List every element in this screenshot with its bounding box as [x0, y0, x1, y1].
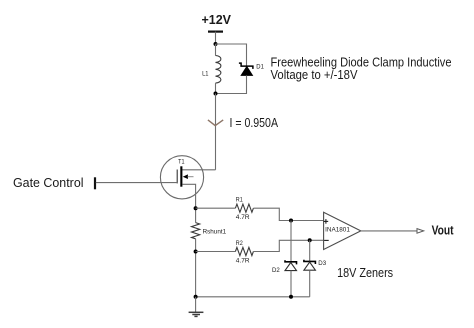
- node D junction dot (plus input / D2): [289, 219, 293, 223]
- inductor L1: [216, 56, 221, 84]
- power rail +12V bar: [208, 31, 223, 33]
- wire ground stub: [195, 297, 197, 313]
- wire D2 anode to bottom wire: [290, 271, 292, 297]
- op-amp plus sign: [324, 219, 329, 224]
- svg-text:R2: R2: [236, 240, 243, 247]
- wire from +12V bar to node A: [215, 32, 217, 44]
- svg-text:INA1801: INA1801: [325, 226, 350, 233]
- gate terminal bar: [94, 177, 96, 189]
- zener D2 body triangle: [285, 263, 297, 271]
- transistor T1 source arrow: [183, 174, 188, 179]
- resistor Rshunt1: [192, 223, 200, 239]
- transistor T1 arrow tail: [188, 176, 194, 178]
- resistor R1: [235, 204, 253, 212]
- wire L1 bottom to node B: [215, 83, 217, 93]
- svg-text:D1: D1: [256, 63, 264, 70]
- svg-text:D2: D2: [272, 267, 280, 274]
- svg-text:4.7R: 4.7R: [236, 214, 250, 221]
- svg-text:Vout: Vout: [432, 224, 455, 238]
- current direction arrow: [208, 120, 223, 126]
- wire gate: [96, 182, 177, 184]
- node H junction dot (D2 on bottom wire): [289, 295, 293, 299]
- output open arrow: [417, 229, 424, 234]
- svg-text:Rshunt1: Rshunt1: [203, 229, 227, 236]
- wire node B down to drain corner: [215, 94, 217, 170]
- node A junction dot (top of L1/D1 pair): [214, 42, 218, 46]
- wire node A to D1 top: [216, 44, 247, 66]
- svg-text:Gate Control: Gate Control: [13, 176, 84, 190]
- wire R2 to opamp minus input: [253, 240, 323, 251]
- zener D2 cathode bar: [285, 260, 297, 264]
- op-amp U1 body: [324, 212, 361, 249]
- wire D3 anode to bottom wire: [309, 270, 311, 297]
- node C junction dot (source / R1): [194, 206, 198, 210]
- op-amp minus sign: [324, 239, 329, 241]
- wire op-amp output: [361, 230, 417, 232]
- diode D1 cathode zener bar: [239, 63, 253, 69]
- zener D3 body triangle: [304, 262, 316, 270]
- svg-text:Voltage to +/-18V: Voltage to +/-18V: [271, 68, 359, 82]
- svg-text:+12V: +12V: [202, 13, 232, 27]
- resistor R2: [235, 247, 253, 255]
- wire R1 to opamp plus input: [253, 208, 323, 220]
- svg-text:I = 0.950A: I = 0.950A: [230, 116, 279, 130]
- node B junction dot (bottom of L1/D1 pair): [214, 92, 218, 96]
- wire Rshunt1 bottom to ground node: [195, 239, 197, 297]
- wire D1 anode to node B: [216, 75, 247, 93]
- wire node E to R2: [196, 251, 236, 253]
- svg-text:T1: T1: [178, 159, 185, 166]
- wire node D to D2: [290, 221, 292, 262]
- wire source to rail: [182, 184, 195, 222]
- wire node C to R1: [196, 207, 236, 209]
- transistor Q1 body circle: [160, 156, 203, 199]
- svg-text:4.7R: 4.7R: [236, 258, 250, 265]
- wire node A to L1 top: [215, 44, 217, 56]
- svg-text:D3: D3: [318, 260, 326, 267]
- zener D3 cathode bar: [304, 260, 316, 264]
- bottom wire: [196, 296, 310, 298]
- transistor T1 channel bar: [180, 166, 182, 186]
- transistor T1 gate line: [176, 170, 178, 184]
- ground: [189, 312, 204, 316]
- wire node F to D3: [309, 240, 311, 261]
- node E junction dot (R2 tap): [194, 250, 198, 254]
- node F junction dot (minus input / D3): [308, 238, 312, 242]
- svg-text:L1: L1: [202, 71, 209, 78]
- wire drain horizontal: [182, 169, 216, 171]
- diode D1 body (filled triangle): [241, 67, 252, 76]
- node G junction dot (ground node): [194, 295, 198, 299]
- svg-text:R1: R1: [236, 197, 243, 204]
- svg-text:18V Zeners: 18V Zeners: [337, 266, 393, 280]
